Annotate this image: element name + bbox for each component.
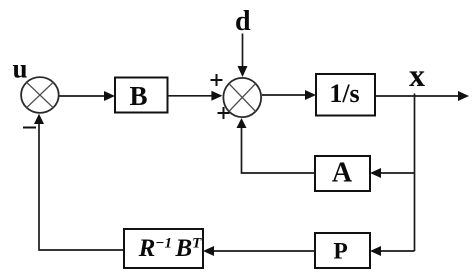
svg-text:x: x	[409, 57, 425, 93]
svg-text:d: d	[235, 6, 251, 37]
svg-text:1/s: 1/s	[329, 79, 359, 108]
svg-text:A: A	[332, 158, 353, 189]
svg-text:u: u	[13, 54, 28, 84]
svg-text:P: P	[333, 239, 347, 265]
svg-text:B: B	[129, 81, 147, 111]
